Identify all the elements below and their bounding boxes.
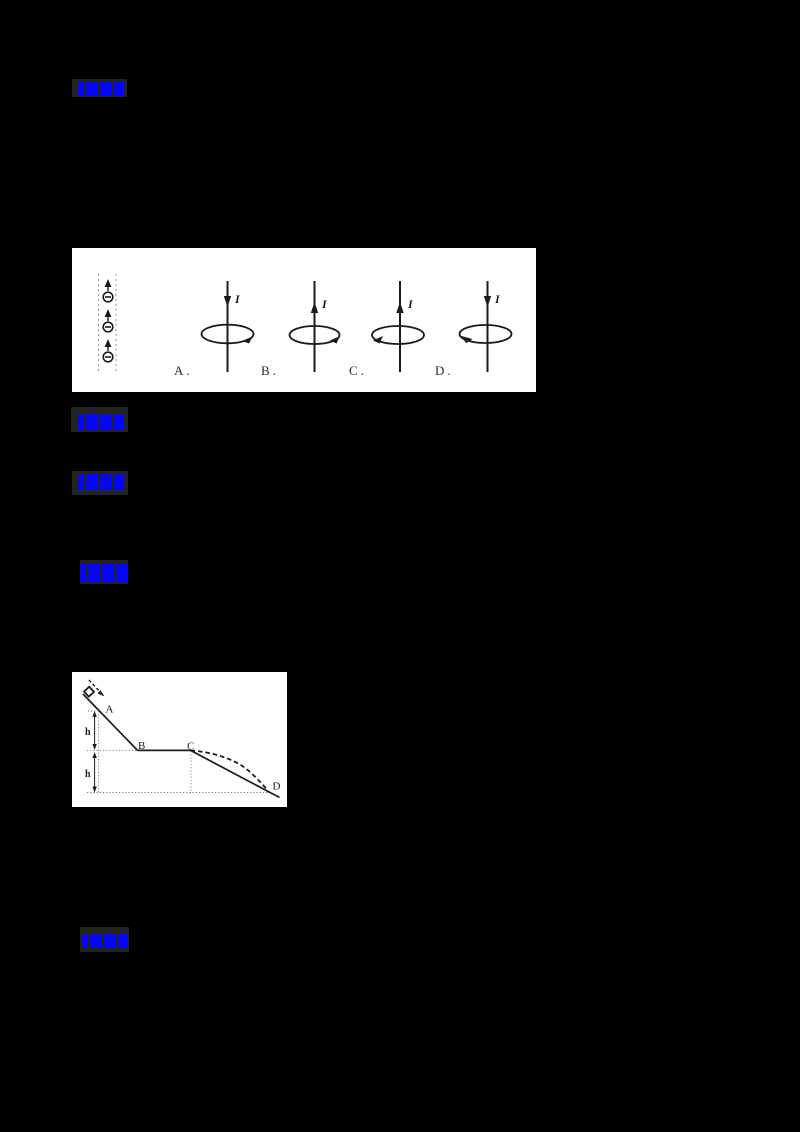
svg-text:B: B: [138, 740, 145, 752]
heading H1 (blue 【答案】 blob): [78, 81, 84, 96]
svg-text:I: I: [321, 297, 328, 311]
svg-text:D.: D.: [435, 363, 454, 378]
option B current arrow (up): [311, 302, 318, 313]
heading H4 halo: [80, 560, 128, 584]
svg-text:I: I: [407, 297, 414, 311]
dotted vertical at left: [97, 711, 99, 793]
figure box F2 (incline diagram): [72, 672, 287, 807]
option C current arrow (up): [396, 302, 403, 313]
heading H1 halo: [72, 79, 127, 97]
slope C-D: [191, 750, 280, 797]
option C wire: [399, 281, 401, 372]
bottom ground dotted line: [87, 792, 268, 794]
heading H3 (blue blob): [77, 474, 83, 490]
option C loop: [372, 326, 424, 344]
heading H5 (blue blob): [82, 934, 88, 948]
option A wire: [227, 281, 229, 372]
option C loop arrow: [373, 336, 383, 344]
option D current arrow (down): [484, 296, 491, 307]
heading H3 halo: [72, 471, 128, 495]
option A loop arrow: [242, 337, 253, 344]
charge q2: [103, 309, 113, 332]
dotted tick at A level: [88, 710, 100, 712]
figure box F1 (four current-loop options): [72, 248, 536, 392]
option D loop arrow: [462, 336, 473, 343]
option B loop: [290, 326, 340, 344]
svg-text:A: A: [106, 704, 114, 716]
option B wire: [314, 281, 316, 372]
dotted vertical at C: [190, 751, 192, 793]
velocity arrow v (dashed): [89, 680, 101, 693]
option A current arrow (down): [224, 296, 231, 307]
svg-text:h: h: [85, 727, 91, 738]
option B loop arrow: [330, 336, 340, 344]
svg-text:D: D: [273, 781, 281, 793]
heading H4 (blue blob): [80, 564, 86, 581]
svg-text:h: h: [85, 769, 91, 780]
option D wire: [487, 281, 489, 372]
heading H5 halo: [80, 927, 129, 952]
block on incline: [84, 687, 94, 697]
charge q1: [103, 279, 113, 302]
floor B-C: [138, 749, 191, 751]
option A loop: [202, 325, 254, 344]
charge q3: [103, 339, 113, 362]
measure arrow h upper: [94, 714, 96, 747]
dotted horizontal at BC level: [87, 749, 137, 751]
incline A-B: [83, 694, 138, 750]
projectile dashed curve C to D: [191, 751, 268, 791]
svg-text:B.: B.: [261, 363, 279, 378]
heading H2 halo: [71, 407, 128, 432]
dashed guide line right: [115, 274, 117, 371]
option D loop: [460, 325, 512, 343]
svg-text:C.: C.: [349, 363, 367, 378]
svg-text:I: I: [234, 292, 241, 306]
heading H2 (blue blob): [77, 414, 83, 429]
svg-text:A.: A.: [174, 363, 193, 378]
dashed guide line left: [98, 274, 100, 371]
measure arrow h lower: [94, 755, 96, 789]
svg-text:I: I: [494, 292, 501, 306]
